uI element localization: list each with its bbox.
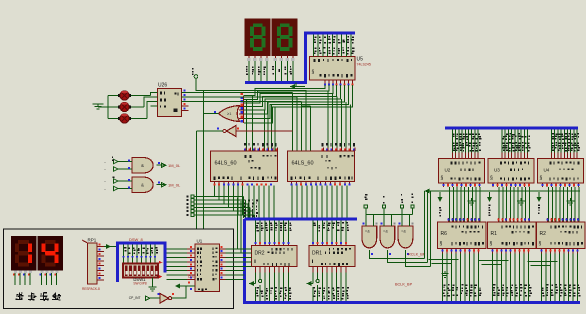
svg-text:1M_0L: 1M_0L [168,163,181,168]
svg-text:--: -- [104,187,106,191]
svg-text:=&: =& [365,229,370,234]
svg-text:RP1: RP1 [88,238,97,243]
svg-text:64LS_60: 64LS_60 [292,161,314,167]
svg-text:U3: U3 [494,168,500,173]
svg-text:§: § [490,241,493,247]
svg-text:--: -- [104,168,106,172]
svg-text:DR1: DR1 [312,251,322,257]
svg-text:U1: U1 [197,239,203,244]
svg-text:DR2: DR2 [255,251,265,257]
svg-text:≥1: ≥1 [227,111,232,116]
svg-text:CP_INT: CP_INT [129,296,141,300]
svg-text:§: § [540,176,543,182]
svg-text:U4: U4 [544,168,550,173]
svg-text:=&: =& [383,229,388,234]
svg-text:SW-DIP8: SW-DIP8 [133,282,146,286]
svg-text:§: § [440,241,443,247]
svg-text:R2: R2 [540,231,547,237]
svg-text:U2: U2 [445,168,451,173]
svg-text:R6: R6 [441,231,448,237]
svg-text:=&: =& [401,229,406,234]
svg-text:§: § [539,241,542,247]
svg-text:--: -- [104,160,106,164]
svg-text:CLK: CLK [188,275,195,279]
svg-text:&: & [141,163,144,168]
svg-text:§: § [312,70,315,76]
svg-text:74LS245: 74LS245 [357,63,371,67]
svg-text:RESPACK-8: RESPACK-8 [82,287,100,291]
svg-text:--: -- [104,180,106,184]
svg-text:§: § [441,176,444,182]
svg-text:U26: U26 [158,83,167,89]
svg-text:R1: R1 [491,231,498,237]
svg-text:BCLK_BP: BCLK_BP [395,283,413,287]
svg-text:&: & [141,183,144,188]
svg-text:DSW_8: DSW_8 [129,237,144,242]
svg-text:RCLK_BP: RCLK_BP [408,253,426,257]
svg-text:64LS_60: 64LS_60 [215,161,237,167]
svg-text:1M_0L: 1M_0L [168,183,181,188]
svg-text:§: § [490,176,493,182]
